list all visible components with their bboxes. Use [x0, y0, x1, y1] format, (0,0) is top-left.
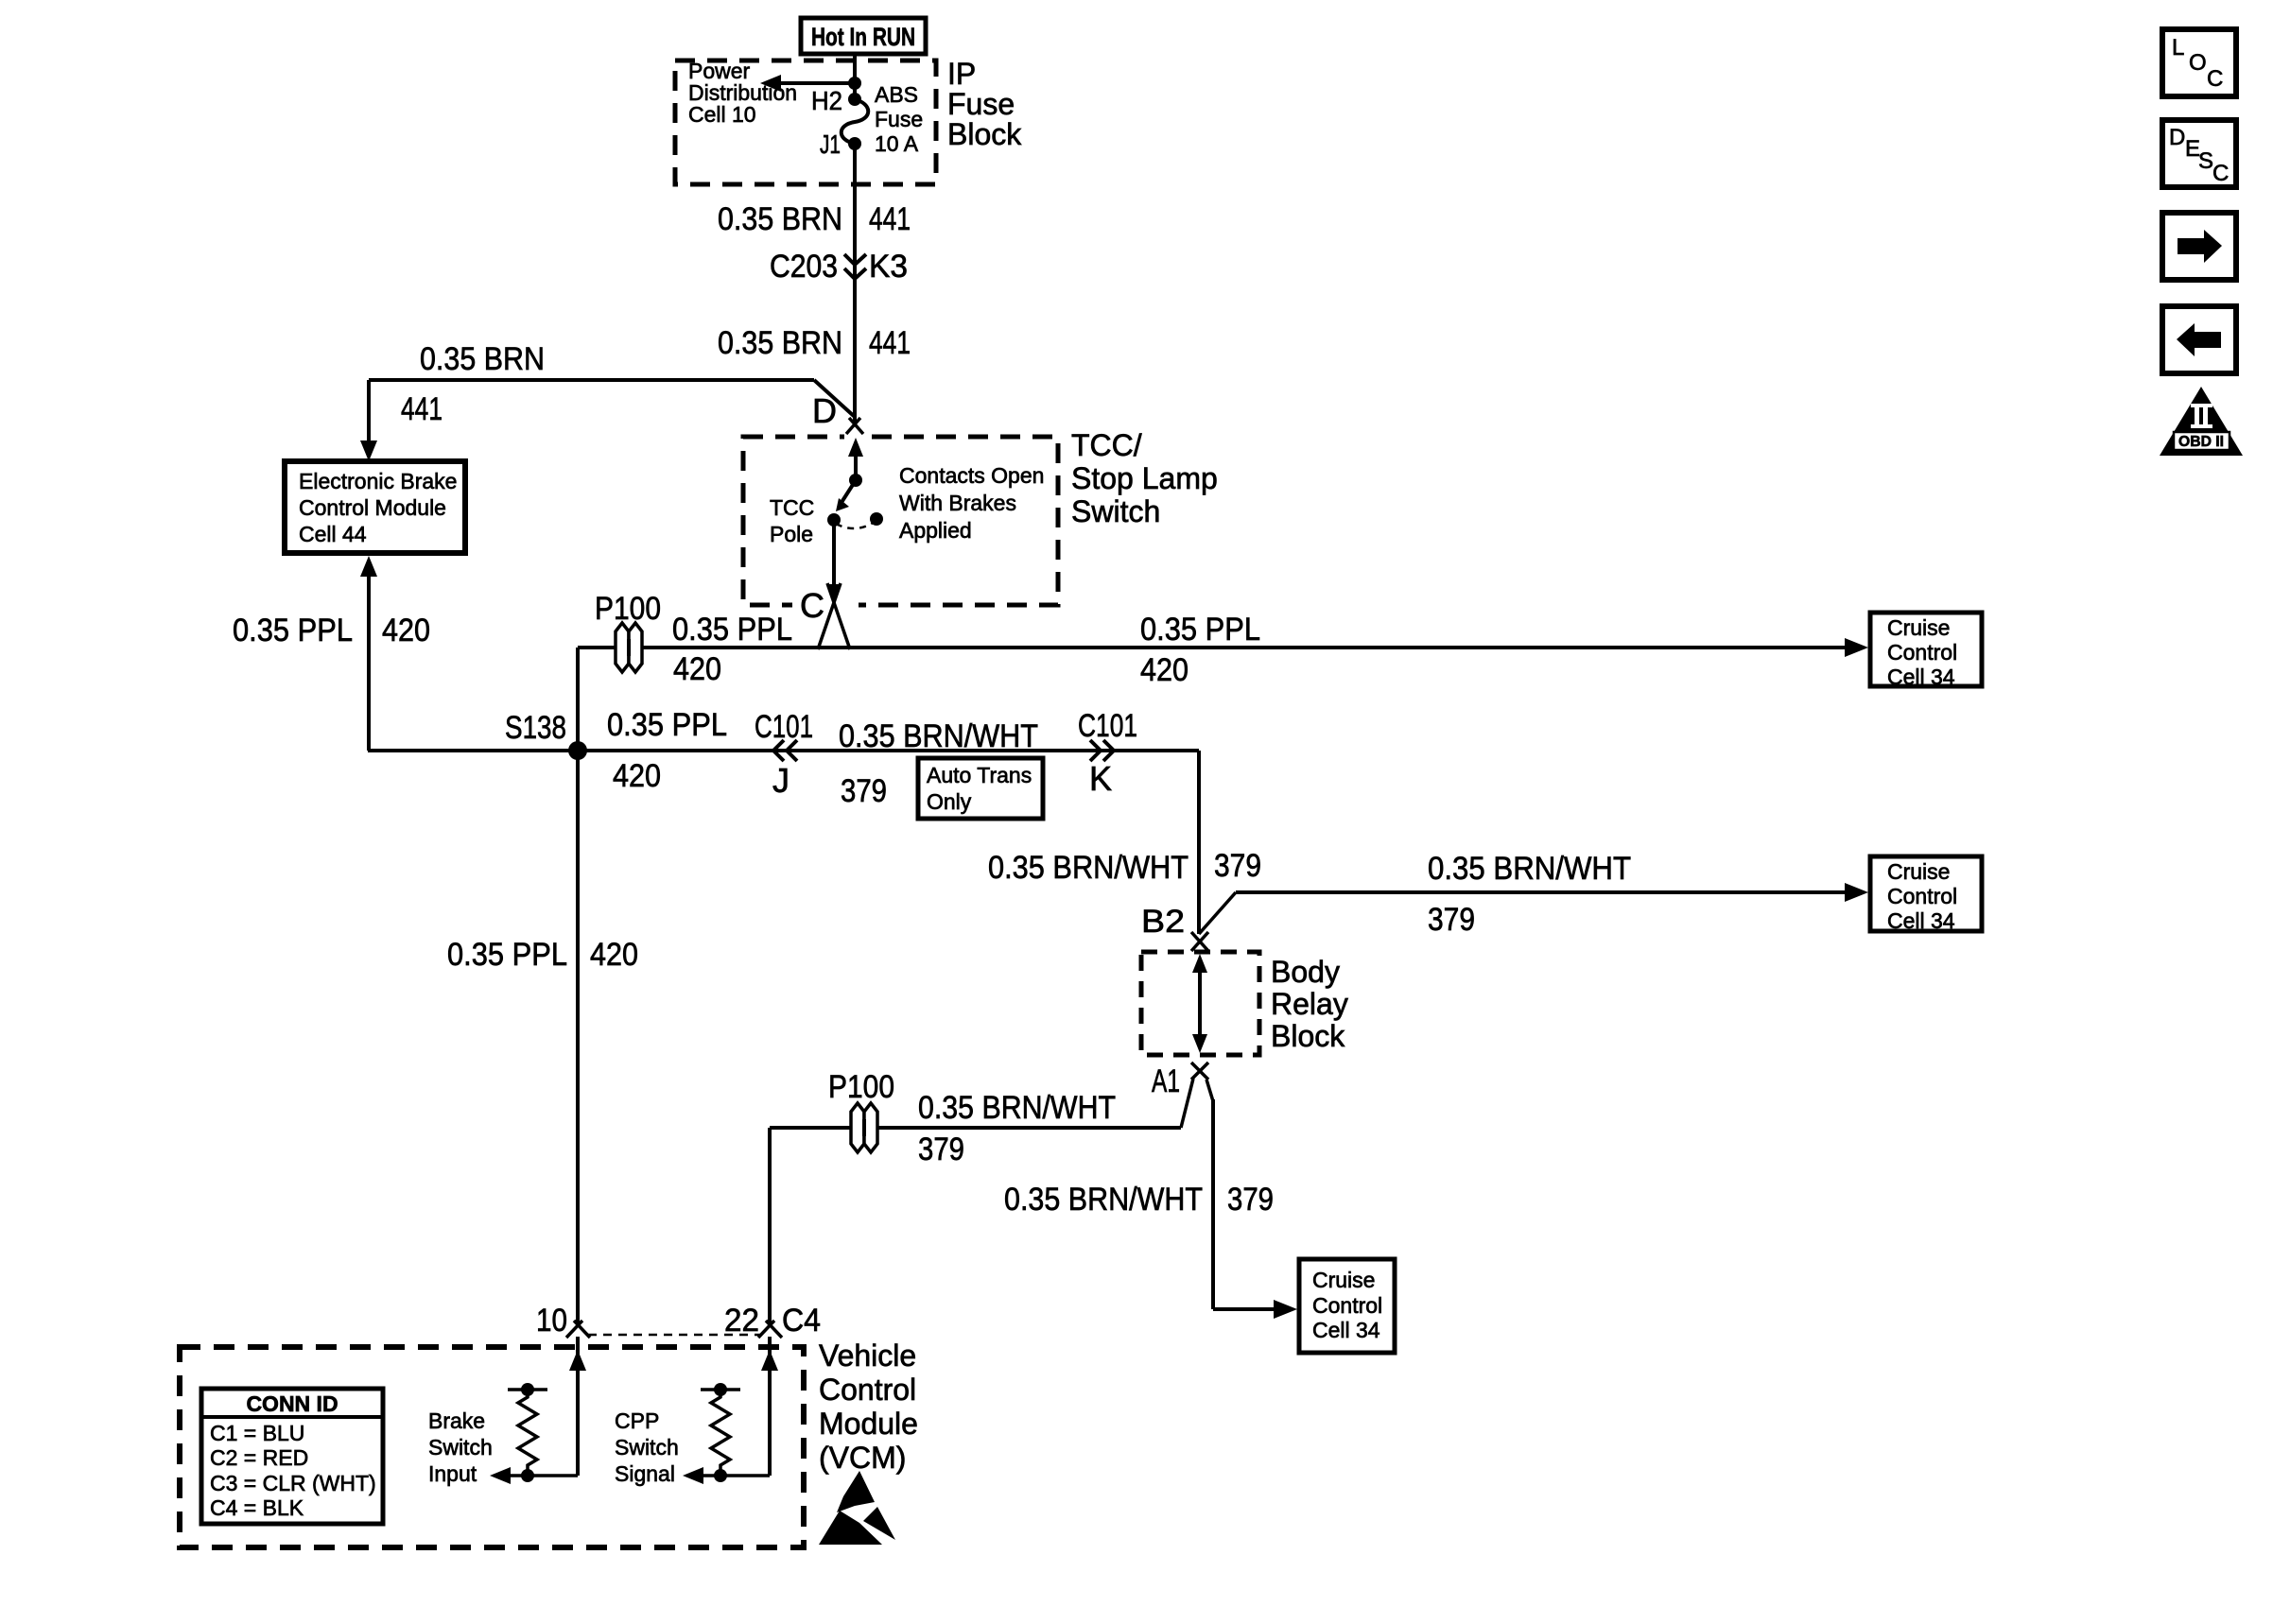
svg-text:P100: P100: [595, 591, 661, 627]
svg-text:379: 379: [1428, 902, 1475, 938]
svg-text:0.35 PPL: 0.35 PPL: [447, 937, 567, 973]
svg-text:O: O: [2189, 50, 2207, 76]
svg-text:Brake: Brake: [428, 1408, 485, 1433]
svg-text:Cell 44: Cell 44: [299, 522, 367, 546]
svg-text:Hot In RUN: Hot In RUN: [811, 23, 915, 51]
fuse ABS Fuse 10 A: [842, 93, 869, 150]
svg-text:Control: Control: [1312, 1293, 1382, 1318]
wire from A1 to P100 branch: [1181, 1079, 1193, 1128]
svg-text:379: 379: [841, 773, 887, 809]
node C connector (crossing): [818, 583, 850, 649]
svg-text:S138: S138: [505, 710, 566, 746]
svg-text:H2: H2: [811, 86, 842, 115]
svg-text:C: C: [800, 586, 824, 625]
svg-text:Cruise: Cruise: [1312, 1268, 1375, 1292]
svg-text:J1: J1: [820, 130, 841, 159]
connector pin 10 half-X: [566, 1321, 590, 1338]
svg-text:22: 22: [724, 1303, 759, 1339]
svg-text:0.35 BRN/WHT: 0.35 BRN/WHT: [988, 850, 1189, 886]
svg-text:379: 379: [1227, 1182, 1274, 1218]
label CPP Switch Signal: [615, 1408, 679, 1486]
wire pin22 into VCM with up arrow: [761, 1337, 778, 1476]
wire arrow to Power Distribution Cell 10: [760, 75, 855, 92]
Cruise Control Cell 34 box (top): [1870, 613, 1982, 689]
label Vehicle Control Module (VCM): [819, 1339, 918, 1475]
svg-text:0.35 BRN: 0.35 BRN: [718, 325, 842, 361]
svg-text:OBD II: OBD II: [2178, 434, 2224, 450]
svg-text:C: C: [2207, 66, 2223, 92]
svg-text:Fuse: Fuse: [875, 107, 923, 131]
svg-text:Control Module: Control Module: [299, 495, 446, 520]
svg-text:Cell 34: Cell 34: [1887, 665, 1955, 689]
svg-text:C1 = BLU: C1 = BLU: [210, 1421, 304, 1445]
svg-text:Applied: Applied: [899, 518, 972, 543]
connector C203 (pin K3) chevrons: [844, 254, 866, 279]
wire branch to Cruise Control (middle): [1199, 883, 1868, 934]
svg-text:Electronic Brake: Electronic Brake: [299, 469, 457, 493]
svg-text:Switch: Switch: [1071, 494, 1160, 528]
svg-text:441: 441: [869, 201, 911, 237]
svg-text:Cruise: Cruise: [1887, 859, 1950, 884]
svg-text:K3: K3: [869, 249, 908, 285]
label TCC Pole: [770, 495, 814, 546]
svg-text:420: 420: [590, 937, 638, 973]
svg-text:P100: P100: [828, 1069, 894, 1105]
svg-text:CPP: CPP: [615, 1408, 659, 1433]
svg-text:0.35 PPL: 0.35 PPL: [233, 613, 353, 648]
Cruise Control Cell 34 box (middle): [1870, 856, 1982, 933]
Cruise Control Cell 34 box (bottom): [1299, 1259, 1395, 1353]
svg-text:Contacts Open: Contacts Open: [899, 463, 1044, 488]
svg-text:K: K: [1089, 759, 1112, 798]
svg-text:Switch: Switch: [428, 1435, 493, 1460]
svg-text:Block: Block: [1271, 1019, 1345, 1053]
label TCC/ Stop Lamp Switch: [1071, 428, 1218, 528]
svg-text:Control: Control: [1887, 640, 1957, 665]
svg-text:(VCM): (VCM): [819, 1441, 906, 1475]
svg-text:441: 441: [401, 391, 442, 427]
svg-text:Switch: Switch: [615, 1435, 679, 1460]
wire up into EBCM bottom with arrow: [360, 556, 377, 751]
svg-text:TCC: TCC: [770, 495, 814, 520]
wire down into EBCM with arrow: [360, 380, 377, 461]
Auto Trans Only box: [918, 758, 1043, 819]
svg-text:420: 420: [1140, 652, 1189, 688]
node A1 connector X: [1191, 1063, 1208, 1080]
icon OBD II triangle: [2160, 387, 2243, 456]
label Body Relay Block: [1271, 955, 1348, 1053]
svg-text:0.35 BRN/WHT: 0.35 BRN/WHT: [1004, 1182, 1203, 1218]
wire down from C101 K to B2: [1197, 751, 1201, 934]
svg-text:Auto Trans: Auto Trans: [927, 763, 1032, 787]
svg-text:441: 441: [869, 325, 911, 361]
svg-text:C101: C101: [1078, 708, 1137, 744]
icon LOC box: [2162, 29, 2236, 96]
ESD sensitive device symbol: [819, 1471, 895, 1545]
icon right arrow box: [2162, 213, 2236, 280]
svg-text:A1: A1: [1152, 1063, 1180, 1099]
svg-text:0.35 BRN: 0.35 BRN: [718, 201, 842, 237]
svg-text:0.35 BRN/WHT: 0.35 BRN/WHT: [839, 718, 1038, 754]
svg-text:10 A: 10 A: [875, 131, 919, 156]
svg-text:S: S: [2198, 148, 2213, 174]
svg-text:Cruise: Cruise: [1887, 615, 1950, 640]
svg-text:0.35 PPL: 0.35 PPL: [672, 612, 792, 648]
switch TCC/stop lamp internal: [826, 438, 883, 603]
svg-text:Cell 34: Cell 34: [1887, 908, 1955, 933]
wire through body relay block: [1192, 954, 1207, 1053]
TCC / Stop Lamp Switch dashed box: [743, 437, 1058, 605]
svg-text:420: 420: [613, 758, 661, 794]
svg-text:B2: B2: [1141, 904, 1185, 940]
label IP Fuse Block: [947, 57, 1022, 151]
svg-text:Pole: Pole: [770, 522, 813, 546]
wire pin10 into VCM with up arrow: [569, 1337, 586, 1476]
svg-text:0.35 BRN: 0.35 BRN: [420, 341, 545, 377]
node S138 junction: [568, 741, 587, 760]
CONN ID table: [201, 1389, 383, 1524]
svg-text:Module: Module: [819, 1407, 918, 1441]
svg-text:Vehicle: Vehicle: [819, 1339, 916, 1373]
connector pin 22 half-X: [758, 1321, 782, 1338]
wire horizontal through C101: [368, 749, 1199, 752]
svg-text:C101: C101: [755, 709, 813, 745]
svg-text:ABS: ABS: [875, 82, 918, 107]
svg-text:Cell 10: Cell 10: [688, 102, 756, 127]
svg-text:Block: Block: [947, 117, 1022, 151]
svg-text:C4 = BLK: C4 = BLK: [210, 1495, 304, 1520]
Electronic Brake Control Module box: [285, 461, 465, 553]
wire from Hot In RUN to fuse: [853, 54, 857, 97]
svg-text:Fuse: Fuse: [947, 87, 1015, 121]
icon DESC box: [2162, 120, 2236, 187]
node Hot In RUN (power feed box): [801, 18, 926, 54]
icon left arrow box: [2162, 306, 2236, 373]
wire horizontal VCM pin 22 to A1: [770, 1126, 1181, 1130]
node D connector half: [846, 418, 863, 434]
Vehicle Control Module dashed box: [180, 1347, 804, 1547]
svg-text:C4: C4: [782, 1303, 821, 1339]
svg-text:D: D: [812, 391, 837, 430]
svg-text:379: 379: [1214, 848, 1261, 884]
svg-text:Relay: Relay: [1271, 987, 1348, 1021]
svg-text:0.35 BRN/WHT: 0.35 BRN/WHT: [1428, 851, 1631, 887]
svg-text:CONN ID: CONN ID: [246, 1391, 338, 1416]
svg-text:With Brakes: With Brakes: [899, 491, 1016, 515]
Body Relay Block dashed box: [1141, 952, 1259, 1055]
connector P100 (pass-through): [616, 623, 642, 672]
node junction at fuse feed: [848, 77, 861, 90]
svg-text:0.35 PPL: 0.35 PPL: [607, 707, 727, 743]
svg-text:0.35 BRN/WHT: 0.35 BRN/WHT: [918, 1090, 1116, 1126]
svg-text:420: 420: [673, 651, 721, 687]
wire fuse output down to D: [853, 144, 857, 423]
connector P100 (second, pass-through): [851, 1103, 877, 1152]
wire horizontal to EBCM branch: [369, 380, 855, 417]
IP Fuse Block dashed box: [675, 60, 936, 184]
svg-text:L: L: [2172, 35, 2184, 60]
connector C4 dashed link: [588, 1334, 760, 1337]
resistor brake switch input pull-up: [490, 1383, 578, 1484]
label Power Distribution Cell 10: [688, 59, 797, 127]
svg-text:C2 = RED: C2 = RED: [210, 1445, 308, 1470]
svg-text:Signal: Signal: [615, 1461, 675, 1486]
wire down to pin 22: [768, 1128, 772, 1324]
resistor CPP switch signal pull-up: [683, 1383, 770, 1484]
svg-text:IP: IP: [947, 57, 976, 91]
svg-text:0.35 PPL: 0.35 PPL: [1140, 612, 1260, 648]
svg-text:C: C: [2212, 161, 2229, 186]
svg-text:Only: Only: [927, 789, 972, 814]
svg-text:420: 420: [382, 613, 430, 648]
connector C101 pin K chevrons: [1090, 740, 1114, 761]
wire from A1 down to Cruise Control (bottom): [1206, 1080, 1297, 1319]
svg-text:J: J: [772, 761, 789, 800]
svg-text:C203: C203: [770, 249, 838, 285]
svg-text:Stop Lamp: Stop Lamp: [1071, 461, 1218, 495]
svg-text:Control: Control: [1887, 884, 1957, 908]
wire riser from S138 to P100 wire: [576, 648, 580, 1324]
label Contacts Open With Brakes Applied: [899, 463, 1044, 543]
svg-text:C3 = CLR (WHT): C3 = CLR (WHT): [210, 1471, 376, 1495]
svg-text:379: 379: [918, 1132, 964, 1167]
svg-text:D: D: [2169, 125, 2185, 150]
value label ABS Fuse 10 A: [875, 82, 923, 156]
label Brake Switch Input: [428, 1408, 493, 1486]
wire long horizontal to Cruise Control (top): [578, 638, 1868, 657]
svg-text:Control: Control: [819, 1373, 916, 1407]
connector C101 pin J chevrons: [773, 740, 797, 761]
svg-text:Body: Body: [1271, 955, 1340, 989]
svg-text:Input: Input: [428, 1461, 477, 1486]
svg-text:TCC/: TCC/: [1071, 428, 1142, 462]
svg-text:Cell 34: Cell 34: [1312, 1318, 1380, 1342]
node B2 connector X: [1191, 932, 1208, 951]
svg-text:10: 10: [536, 1303, 567, 1339]
